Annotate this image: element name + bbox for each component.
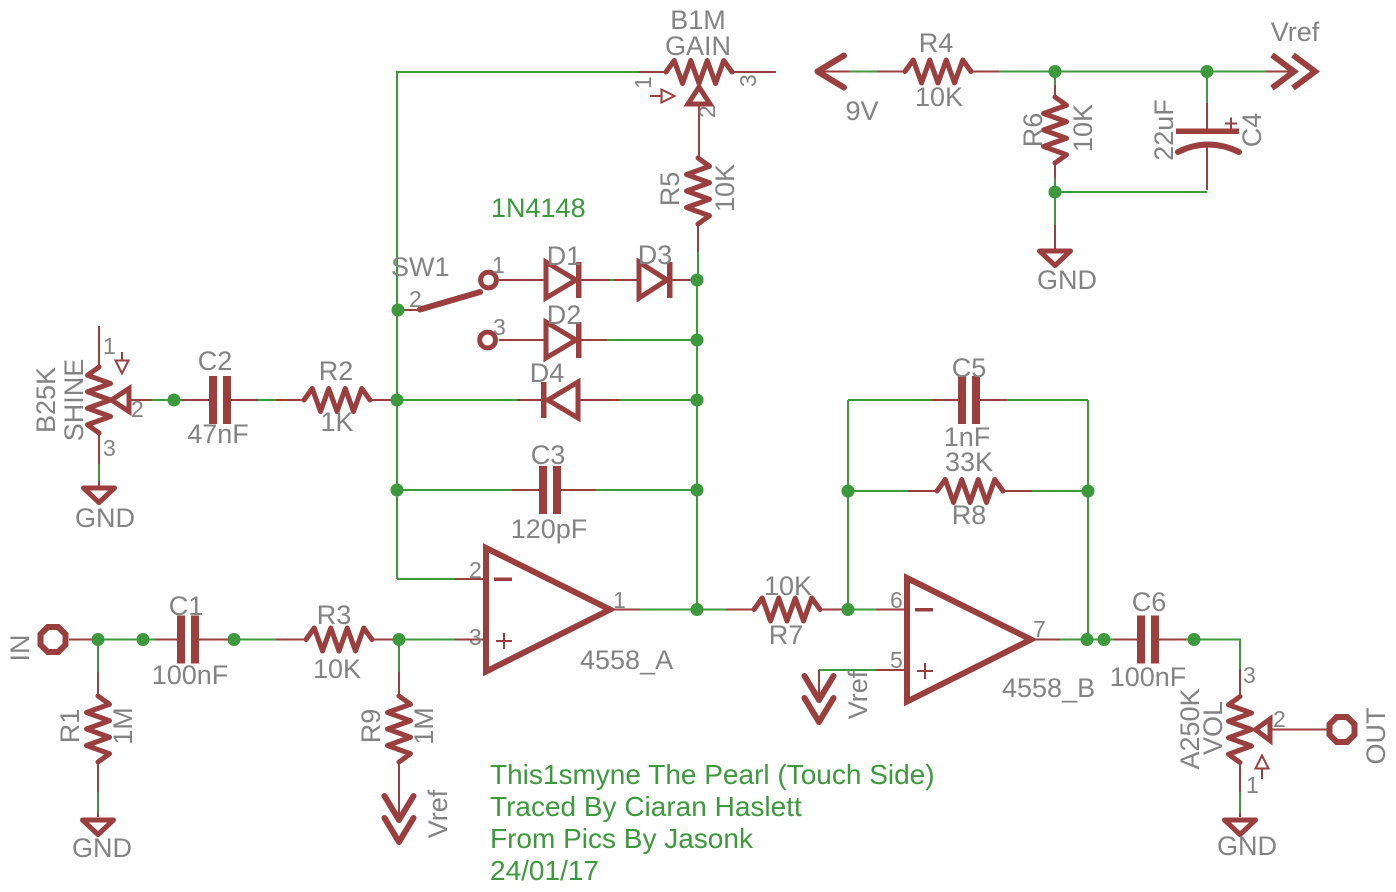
R5 body: [687, 158, 710, 224]
svg-text:10K: 10K: [1068, 104, 1098, 152]
svg-text:47nF: 47nF: [187, 419, 249, 449]
wire: feedback right vertical: [1087, 400, 1089, 640]
SHINE pin 2 lead: [130, 399, 152, 401]
diode D1: [499, 241, 610, 298]
junction IN net: [137, 633, 150, 646]
svg-text:1: 1: [492, 252, 505, 278]
svg-text:Vref: Vref: [1271, 17, 1320, 47]
ground GND (SHINE): [75, 488, 135, 533]
SW1 lever: [420, 292, 480, 310]
svg-text:From Pics By Jasonk: From Pics By Jasonk: [490, 823, 754, 854]
supply arrow 9V: [817, 56, 879, 127]
junction D3/R5 on right bus: [691, 274, 704, 287]
wire R5 to right bus: [697, 252, 699, 280]
wire: R6/C4 bottom loop: [1055, 191, 1207, 193]
svg-text:2: 2: [694, 105, 720, 118]
R5 bottom lead: [697, 222, 699, 252]
wire: D1 to D3: [610, 279, 614, 281]
svg-text:2: 2: [409, 286, 422, 312]
svg-text:SW1: SW1: [391, 252, 450, 282]
wire: R4 to Vref: [999, 71, 1266, 73]
switch SW1: [391, 252, 506, 348]
svg-text:GND: GND: [72, 833, 132, 863]
svg-text:R6: R6: [1018, 113, 1048, 148]
junction C4 top Vref node: [1201, 65, 1214, 78]
wire: left vertical bus: [396, 71, 398, 579]
SHINE pin 1 lead: [98, 326, 100, 369]
wire: op-amp B pin5: [819, 669, 876, 671]
junction IN/R1: [92, 633, 105, 646]
svg-text:VOL: VOL: [1198, 701, 1228, 755]
op-amp U1B 4558_B: [890, 578, 1095, 703]
svg-text:3: 3: [493, 314, 506, 340]
wire VOL pin1 to GND: [1239, 792, 1241, 813]
svg-text:10K: 10K: [915, 82, 963, 112]
op-amp B non-inverting input plus sign: [917, 663, 933, 679]
svg-text:4558_A: 4558_A: [580, 645, 673, 675]
wire SHINE pin3 to GND: [98, 464, 100, 481]
wire: 9V to R4: [849, 71, 877, 73]
pad IN: [5, 627, 98, 662]
svg-text:SHINE: SHINE: [59, 359, 89, 442]
svg-text:IN: IN: [5, 635, 35, 662]
SW1 pin 2 lead: [397, 309, 420, 311]
title text: [490, 759, 935, 886]
VOL resistive element: [1229, 697, 1252, 763]
svg-text:C1: C1: [169, 591, 204, 621]
wire: R3 to op-amp pin3: [399, 639, 455, 641]
junction R2/D4 row on left bus: [391, 394, 404, 407]
svg-text:33K: 33K: [945, 447, 993, 477]
potentiometer SHINE B25K: [31, 326, 152, 486]
svg-text:100nF: 100nF: [1110, 662, 1187, 692]
capacitor C2 47nF: [182, 346, 258, 449]
resistor R1 1M: [55, 645, 138, 817]
SW1 contact 3: [480, 332, 496, 348]
junction SW1 pin2 on left bus: [392, 304, 405, 317]
junction R6/C4 bottom node: [1049, 186, 1062, 199]
svg-text:100nF: 100nF: [152, 660, 229, 690]
svg-text:GND: GND: [75, 503, 135, 533]
junction R8 right: [1082, 485, 1095, 498]
GAIN resistive element: [666, 61, 732, 84]
svg-text:1M: 1M: [108, 707, 138, 745]
op-amp U1A 4558_A: [469, 548, 673, 675]
svg-text:R3: R3: [317, 600, 352, 630]
GAIN pin 3 lead: [731, 71, 776, 73]
junction C3 row on left bus: [391, 484, 404, 497]
GAIN pin 1 lead: [639, 71, 667, 73]
wire: IN net: [98, 639, 155, 641]
supply arrow Vref (down, R9): [385, 789, 454, 842]
junction R3/R9/pin3: [393, 633, 406, 646]
svg-text:C4: C4: [1237, 113, 1267, 148]
svg-text:120pF: 120pF: [511, 514, 588, 544]
op-amp A triangle body: [486, 548, 610, 672]
svg-text:C3: C3: [531, 440, 566, 470]
wire: op-amp pin2: [397, 578, 455, 580]
wire: op-amp B output: [1033, 639, 1060, 641]
svg-text:22uF: 22uF: [1149, 99, 1179, 161]
svg-text:R8: R8: [952, 500, 987, 530]
svg-text:R5: R5: [655, 172, 685, 207]
svg-text:2: 2: [131, 396, 144, 422]
junction op-amp B output/feedback: [1081, 633, 1094, 646]
junction R4/R6 Vref node: [1049, 65, 1062, 78]
svg-text:2: 2: [469, 557, 482, 583]
svg-text:1M: 1M: [409, 707, 439, 745]
svg-text:6: 6: [890, 587, 903, 613]
svg-text:9V: 9V: [845, 96, 878, 126]
svg-text:D1: D1: [547, 241, 582, 271]
svg-text:3: 3: [103, 435, 116, 461]
svg-text:24/01/17: 24/01/17: [490, 855, 599, 886]
wire: op-amp A output: [612, 609, 640, 611]
resistor R6 10K: [1018, 72, 1098, 193]
diode D2: [499, 300, 697, 358]
svg-text:C6: C6: [1132, 587, 1167, 617]
svg-text:This1smyne The Pearl (Touch Si: This1smyne The Pearl (Touch Side): [490, 759, 935, 790]
wire: feedback left vertical: [847, 400, 849, 610]
junction C6/VOL: [1188, 633, 1201, 646]
SHINE resistive element: [88, 367, 111, 433]
op-amp B inverting input minus sign: [915, 608, 933, 612]
svg-text:GAIN: GAIN: [665, 31, 731, 61]
wire: C6 to VOL: [1186, 640, 1240, 670]
svg-text:C2: C2: [198, 346, 233, 376]
GAIN pin 2 lead: [698, 104, 700, 160]
svg-text:R4: R4: [919, 28, 954, 58]
resistor R2 1K: [276, 356, 397, 437]
pad OUT: [1330, 708, 1392, 765]
svg-text:Traced By Ciaran Haslett: Traced By Ciaran Haslett: [490, 791, 802, 822]
junction D4 on right bus: [691, 394, 704, 407]
svg-text:4558_B: 4558_B: [1002, 673, 1095, 703]
op-amp A non-inverting input plus sign: [496, 633, 512, 649]
svg-text:C5: C5: [952, 353, 987, 383]
resistor R8 33K: [848, 447, 1088, 530]
svg-text:1N4148: 1N4148: [491, 193, 586, 223]
potentiometer VOL A250K: [1175, 662, 1328, 817]
capacitor C5 1nF: [848, 353, 1088, 452]
supply arrow Vref (right): [1266, 17, 1320, 88]
resistor R7 10K: [726, 571, 848, 650]
potentiometer GAIN B1M: [630, 5, 776, 160]
svg-text:3: 3: [735, 74, 761, 87]
op-amp A inverting input minus sign: [494, 578, 512, 582]
ground GND (VOL): [1217, 820, 1277, 861]
wire: R7 to op-amp pin6: [848, 609, 876, 611]
VOL pin 1 lead: [1239, 761, 1241, 792]
SHINE rotation marker: [121, 352, 123, 360]
svg-text:GND: GND: [1037, 265, 1097, 295]
junction SHINE wiper net: [168, 394, 181, 407]
svg-text:3: 3: [469, 624, 482, 650]
capacitor C6 100nF: [1110, 587, 1187, 692]
supply arrow Vref (down, pin5): [805, 670, 874, 722]
svg-text:R1: R1: [55, 709, 85, 744]
VOL rotation marker: [1256, 756, 1269, 769]
junction output net: [1098, 633, 1111, 646]
wire: SHINE wiper to C2: [152, 399, 182, 401]
capacitor C3 120pF: [397, 440, 697, 544]
resistor R9 1M: [356, 645, 439, 815]
GAIN rotation marker: [650, 95, 661, 97]
svg-text:OUT: OUT: [1361, 708, 1391, 765]
diode D4: [397, 358, 697, 418]
junction op-amp A output: [691, 603, 704, 616]
svg-text:R2: R2: [319, 356, 354, 386]
capacitor C1 100nF: [152, 591, 229, 690]
ground GND (R1): [72, 820, 132, 863]
wire: right vertical bus: [696, 280, 698, 610]
wire: C2 to R2: [258, 399, 276, 401]
resistor R3 10K: [276, 600, 399, 684]
svg-text:7: 7: [1033, 616, 1046, 642]
wire: output to R7: [697, 609, 726, 611]
svg-text:1K: 1K: [320, 407, 353, 437]
svg-text:D4: D4: [530, 358, 565, 388]
svg-text:3: 3: [1243, 662, 1256, 688]
svg-text:2: 2: [1273, 706, 1286, 732]
VOL wiper arrow: [1256, 719, 1271, 741]
VOL pin 2 wire to OUT: [1270, 729, 1328, 731]
junction D2 on right bus: [691, 334, 704, 347]
svg-text:Vref: Vref: [423, 789, 453, 838]
SHINE pin 3 lead: [98, 431, 100, 464]
svg-text:Vref: Vref: [843, 670, 873, 719]
svg-text:GND: GND: [1217, 831, 1277, 861]
op-amp B triangle body: [907, 578, 1031, 702]
svg-text:1: 1: [103, 333, 116, 359]
resistor R5 10K: [655, 158, 740, 280]
svg-text:1: 1: [630, 76, 656, 89]
svg-text:10K: 10K: [710, 164, 740, 212]
wire: top-left horizontal GAIN net: [397, 71, 639, 73]
svg-text:B25K: B25K: [31, 367, 61, 433]
junction R8 left: [842, 485, 855, 498]
svg-text:10K: 10K: [313, 654, 361, 684]
ground GND (top right): [1037, 192, 1097, 295]
resistor R4 10K: [877, 28, 999, 112]
junction C1/R3: [228, 633, 241, 646]
capacitor C4 22uF electrolytic: [1149, 72, 1267, 191]
junction pin6 feedback: [842, 603, 855, 616]
svg-text:D2: D2: [547, 300, 582, 330]
wire: C1 to R3: [228, 639, 276, 641]
svg-text:10K: 10K: [764, 571, 812, 601]
svg-text:D3: D3: [638, 240, 673, 270]
diode D3: [614, 240, 697, 298]
svg-text:R9: R9: [356, 709, 386, 744]
GAIN wiper arrow: [688, 87, 710, 104]
svg-text:1: 1: [1246, 772, 1259, 798]
svg-text:R7: R7: [769, 620, 804, 650]
SHINE wiper arrow: [112, 389, 130, 412]
junction C3 on right bus: [691, 484, 704, 497]
SW1 contact 1: [481, 272, 497, 288]
